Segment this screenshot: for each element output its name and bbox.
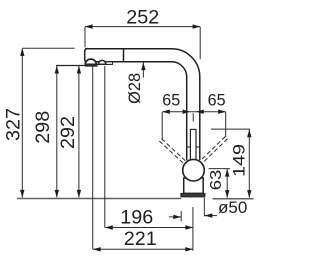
axis extension line below base (192, 207, 194, 251)
pull-out hose inside tube (190, 129, 196, 160)
extension line from outlet 1 (for 221) (92, 66, 94, 249)
svg-text:327: 327 (3, 108, 24, 141)
dimension 149 (211, 129, 250, 198)
dome button 2 (98, 60, 106, 64)
dimension 65 65 (162, 112, 226, 140)
dimension 327 (22, 48, 74, 197)
dome button 1 (85, 59, 96, 64)
ball joint (183, 159, 205, 181)
svg-text:ø50: ø50 (218, 198, 247, 217)
diameter 50 dimension (180, 211, 182, 221)
extension line from outlet 2 (for 196) (104, 66, 106, 228)
countertop line right segment (213, 198, 254, 200)
svg-text:196: 196 (120, 208, 153, 229)
svg-text:65: 65 (208, 91, 226, 110)
spray head block (85, 49, 124, 62)
svg-text:298: 298 (33, 111, 54, 144)
svg-text:149: 149 (231, 144, 249, 177)
dimension 292 (78, 66, 80, 197)
base plate (181, 193, 205, 197)
hose side tick left (187, 146, 191, 148)
dimension 63 (209, 169, 230, 198)
dimension 252 top (85, 27, 200, 60)
dimension 298 (56, 66, 58, 197)
spray outlet bar (85, 64, 97, 66)
svg-text:252: 252 (126, 7, 159, 28)
faucet spout tube (L-shape with curved corner) (85, 49, 200, 161)
svg-text:65: 65 (162, 91, 180, 110)
svg-text:221: 221 (124, 229, 157, 250)
dimension 196 (105, 227, 193, 229)
swivel dashed lines left (159, 137, 227, 165)
svg-text:292: 292 (58, 116, 79, 149)
svg-text:63: 63 (208, 170, 225, 191)
spray face left line (56, 65, 87, 67)
svg-text:Ø28: Ø28 (125, 73, 144, 104)
dimension 221 (93, 248, 193, 250)
swivel dashed lines right (200, 137, 225, 161)
body cylinder (184, 178, 204, 193)
hose side tick right (196, 146, 200, 148)
spray head lower lip (85, 62, 112, 65)
diameter 28 label (142, 63, 144, 78)
countertop line (17, 198, 181, 200)
